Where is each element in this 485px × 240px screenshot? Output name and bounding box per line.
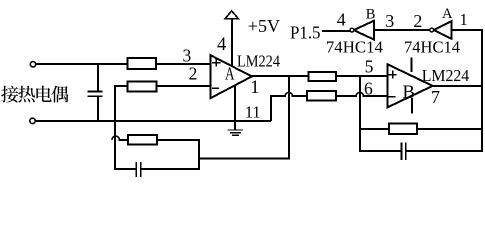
capacitor C1 top plate xyxy=(88,90,101,92)
resistor R3 (to U1B pin5) xyxy=(308,72,336,81)
label 接热电偶 (connect thermocouple) xyxy=(1,86,68,103)
ground symbol bars xyxy=(228,130,242,135)
wire: U2B input to U2A output bubble xyxy=(375,29,429,31)
wire: +5V arrow stem to U1A pin4 xyxy=(231,19,233,65)
wire: R5 right lead to vertical B xyxy=(158,140,199,168)
hop arc: pin6 feed over vertical B2 xyxy=(356,92,364,96)
wire: R2 right lead to op-amp U1A pin2 xyxy=(157,85,210,87)
wire bottom input: J2 to jog at x271 xyxy=(36,120,270,122)
text 接 xyxy=(1,86,18,103)
resistor R4 (to U1B pin6) xyxy=(307,91,336,100)
wire: vertical B2 from pin5 line down to U1B feedback xyxy=(359,77,361,150)
wire: R4 right lead to hop xyxy=(336,95,356,97)
capacitor C3 left plate xyxy=(401,143,403,159)
svg-text:4: 4 xyxy=(217,35,226,55)
inverter U2A body xyxy=(434,21,452,39)
capacitor C3 right plate xyxy=(405,143,407,159)
wire: right vertical bus xyxy=(481,31,483,150)
terminal J2 (thermocouple -) xyxy=(30,118,35,123)
svg-text:5: 5 xyxy=(365,57,374,77)
svg-text:1: 1 xyxy=(250,78,259,98)
terminal J1 (thermocouple +) xyxy=(30,62,35,67)
wire: U1A pin11 to ground xyxy=(234,86,236,129)
svg-text:2: 2 xyxy=(189,63,198,83)
power +5V arrow head xyxy=(225,11,238,19)
U1A minus input symbol xyxy=(213,87,219,89)
U1A plus input symbol xyxy=(213,59,220,66)
wire: U2A input to right bus xyxy=(452,29,482,31)
wire: C3 line xyxy=(360,150,482,152)
wire: U1A output pin1 to R3 xyxy=(252,75,308,77)
svg-text:7: 7 xyxy=(431,87,440,107)
capacitor C2 left plate xyxy=(135,163,137,176)
inverter U2B bubble xyxy=(350,28,354,32)
text 电 xyxy=(36,86,51,102)
op-amp U1B body xyxy=(388,64,433,107)
U1B bottom power stub xyxy=(411,99,413,113)
wire: feedback tap to U1A output xyxy=(200,78,289,159)
wire: U1B output pin7 to right bus xyxy=(433,85,482,87)
svg-text:6: 6 xyxy=(364,79,373,99)
svg-text:4: 4 xyxy=(337,10,346,30)
svg-text:2: 2 xyxy=(413,11,422,31)
svg-text:1: 1 xyxy=(460,10,468,29)
svg-text:B: B xyxy=(403,83,415,103)
capacitor C2 right plate xyxy=(140,163,142,176)
resistor R1 xyxy=(128,58,156,69)
wire: hop exit to R4 xyxy=(293,95,307,97)
wire: R2 left lead down (vertical A) to feedback net xyxy=(115,86,127,168)
text 热 xyxy=(18,86,35,103)
svg-text:74HC14: 74HC14 xyxy=(326,38,383,57)
svg-text:P1.5: P1.5 xyxy=(290,23,321,43)
op-amp U1A body xyxy=(211,55,252,98)
hop arc: R5 lead over vertical A xyxy=(112,136,120,140)
svg-text:A: A xyxy=(225,64,235,84)
wire: R6 feedback line xyxy=(360,128,482,130)
inverter U2B body xyxy=(354,21,374,40)
hop arc: pin6 feed over U1A output vertical xyxy=(285,92,293,96)
wire: hop exit to U1B pin6 xyxy=(364,95,388,97)
svg-text:74HC14: 74HC14 xyxy=(404,38,460,57)
svg-text:3: 3 xyxy=(385,11,394,31)
wire: jog from bottom wire up to pin6 line xyxy=(271,96,285,120)
svg-text:LM224: LM224 xyxy=(422,66,470,85)
resistor R2 xyxy=(127,81,156,91)
wire: C1 bottom plate to bottom wire xyxy=(97,97,99,120)
U1B top power stub xyxy=(411,59,413,72)
svg-text:+5V: +5V xyxy=(248,16,280,36)
resistor R5 feedback of U1A xyxy=(128,135,157,145)
wire: R5 left lead stub xyxy=(120,139,129,141)
resistor R6 feedback of U1B xyxy=(389,124,417,134)
wire node: C1 tap on top wire xyxy=(97,64,99,91)
U1B minus input symbol xyxy=(389,96,395,98)
text 偶 xyxy=(52,86,69,103)
wire: P1.5 to inverter U2B output bubble xyxy=(323,30,350,32)
U1B plus input symbol xyxy=(389,71,396,78)
svg-text:A: A xyxy=(442,6,453,22)
inverter U2A bubble xyxy=(430,28,434,32)
capacitor C1 bottom plate xyxy=(88,95,101,97)
wire top input: J1 to op-amp U1A pin3 xyxy=(37,63,210,65)
svg-text:B: B xyxy=(366,6,376,22)
wire: C2 line xyxy=(115,168,199,170)
wire: R3 right lead to U1B pin5 xyxy=(336,75,387,77)
svg-text:11: 11 xyxy=(245,103,261,122)
svg-text:LM224: LM224 xyxy=(237,51,280,70)
